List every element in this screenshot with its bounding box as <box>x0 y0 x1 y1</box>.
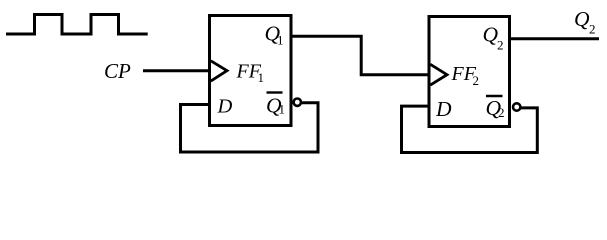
FF1 feedback wire <box>181 103 319 152</box>
svg-text:2: 2 <box>498 105 505 120</box>
svg-text:2: 2 <box>497 38 504 53</box>
wire CP input <box>143 69 209 72</box>
svg-text:D: D <box>217 95 233 117</box>
FF1 Q1 label <box>265 21 284 47</box>
svg-text:1: 1 <box>258 70 265 85</box>
FF1 label <box>236 60 265 85</box>
FF1 clock wedge <box>211 61 227 81</box>
Q2 output label <box>574 7 596 37</box>
FF2 feedback wire <box>402 106 538 152</box>
flip-flop FF2 box <box>429 17 510 127</box>
svg-text:2: 2 <box>589 22 596 37</box>
svg-text:D: D <box>435 97 452 121</box>
svg-text:Q: Q <box>574 7 590 31</box>
svg-text:CP: CP <box>104 59 131 83</box>
FF1 Q1-bar label <box>266 93 285 118</box>
wire Q1 to FF2 clock <box>291 36 428 75</box>
FF2 Q2 label <box>483 23 504 53</box>
svg-text:1: 1 <box>277 33 284 48</box>
svg-text:1: 1 <box>279 102 286 117</box>
FF2 Q2-bar bubble <box>513 103 520 110</box>
FF2 Q2-bar label <box>486 96 505 120</box>
flip-flop FF1 box <box>210 16 292 126</box>
FF2 clock wedge <box>430 64 447 85</box>
FF1 Q1-bar bubble <box>294 99 301 106</box>
FF2 label <box>451 63 480 88</box>
svg-text:2: 2 <box>473 73 480 88</box>
wire Q2 output <box>510 37 600 40</box>
clock waveform <box>6 15 148 35</box>
